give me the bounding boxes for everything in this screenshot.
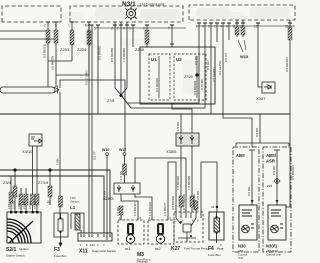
wire X26/3 to pump m1 (121, 194, 138, 217)
svg-text:m2: m2 (155, 246, 161, 251)
diagnostic socket X11 (78, 233, 112, 241)
svg-text:1.5 RD/BK: 1.5 RD/BK (122, 48, 126, 62)
svg-text:2: 2 (117, 27, 119, 31)
svg-text:0.5 BK/RN: 0.5 BK/RN (171, 196, 175, 210)
svg-text:ABS/: ABS/ (266, 153, 277, 158)
node Z7/8 junction (115, 22, 205, 108)
svg-text:S2/1: S2/1 (6, 247, 17, 253)
svg-text:U2: U2 (176, 57, 182, 62)
ABS/ASR control unit N30/1 (268, 205, 286, 240)
wire X26/3 to pump m2 (135, 194, 152, 217)
wire coupler box output (172, 104, 192, 133)
svg-text:22: 22 (47, 200, 51, 204)
svg-text:7: 7 (168, 27, 170, 31)
node Z7/20 (195, 73, 198, 76)
svg-text:F3: F3 (54, 247, 60, 253)
wire bus to connector X35/5 pin 1 (180, 114, 182, 133)
icon module symbol (125, 7, 136, 20)
svg-text:0.5 RD/GN: 0.5 RD/GN (291, 165, 295, 180)
control module box (right, dashed) (189, 5, 295, 20)
svg-text:0.5 RD: 0.5 RD (272, 165, 276, 175)
svg-text:0.5 BK/RD: 0.5 BK/RD (155, 77, 159, 92)
svg-text:Z3/4: Z3/4 (3, 180, 12, 185)
sleeve on pin8 wire (54, 30, 58, 43)
bus wire 15 drop to N30/1 (286, 114, 290, 207)
svg-text:1.5 BK/GY: 1.5 BK/GY (133, 202, 137, 216)
connector X4/10 (29, 134, 42, 146)
svg-text:Package: Package (137, 260, 148, 263)
svg-text:ASR: ASR (266, 159, 275, 164)
svg-text:LH Control unit: LH Control unit (140, 3, 164, 7)
svg-text:0.5 BK/YE: 0.5 BK/YE (43, 44, 47, 58)
svg-text:8: 8 (233, 25, 235, 29)
wire from capsule down to fuse F3 (59, 92, 61, 219)
svg-text:0.5 GN/RD: 0.5 GN/RD (212, 66, 216, 82)
svg-text:4 RD: 4 RD (17, 203, 21, 209)
svg-text:Rear: Rear (217, 247, 224, 251)
sleeve Z203 (70, 30, 74, 45)
svg-text:Z7/19: Z7/19 (38, 180, 49, 185)
node Z3/4 (13, 168, 16, 171)
svg-text:4: 4 (123, 27, 125, 31)
sleeve Z204 (87, 30, 91, 45)
wire into N30/1 with node Z28/5 (274, 150, 280, 205)
svg-text:E34: E34 (90, 243, 95, 247)
wire pin5 module3 to bus (210, 23, 212, 114)
svg-text:X35/5: X35/5 (166, 149, 177, 154)
wire pin5 to diagnostic socket (88, 25, 90, 233)
svg-text:0.5 RD/BN: 0.5 RD/BN (110, 48, 114, 62)
wire pin30 module3 with sleeve (289, 20, 291, 114)
svg-text:0.5 GY: 0.5 GY (224, 53, 228, 62)
svg-text:Z204: Z204 (77, 47, 87, 52)
top module pins (46, 22, 292, 25)
wire pin7 to coupler box (171, 25, 173, 47)
off-page wire pair top left (0, 31, 54, 39)
svg-text:Unit: Unit (238, 256, 243, 260)
connector X35/5 (176, 133, 199, 146)
svg-text:0.5 RD: 0.5 RD (255, 127, 259, 137)
svg-text:Diagnostic Socket: Diagnostic Socket (92, 249, 116, 253)
svg-text:Starter Switch: Starter Switch (6, 254, 25, 258)
svg-text:U1: U1 (151, 57, 157, 62)
wire connector Z203 (71, 22, 73, 61)
wire pin2 left module (48, 22, 89, 87)
svg-text:41: 41 (211, 205, 215, 209)
bus circuit 16 (0, 176, 104, 233)
svg-text:W10: W10 (102, 148, 109, 152)
wire pin12 to connector X357 (258, 23, 262, 87)
connector strip U2 (dashed) (174, 54, 206, 100)
control module box (left, dashed) (2, 6, 61, 22)
svg-text:1: 1 (196, 25, 198, 29)
connector strip U1 (dashed) (149, 54, 170, 100)
wire X35/5 to relay pin 2 (180, 146, 182, 212)
svg-text:3: 3 (111, 27, 113, 31)
svg-text:2.5 RD: 2.5 RD (12, 201, 16, 209)
scan smudges (10, 7, 290, 237)
svg-text:6: 6 (226, 25, 228, 29)
svg-text:Ignition: Ignition (19, 247, 29, 251)
pin numbers (44, 24, 289, 31)
svg-text:L1: L1 (70, 205, 76, 210)
bus rail under module 3 (196, 25, 295, 27)
harness capsule to connector (0, 86, 59, 94)
coupler X26/3 (114, 183, 140, 194)
svg-text:0.5 VT: 0.5 VT (93, 151, 97, 160)
svg-text:Z203: Z203 (60, 47, 70, 52)
svg-text:1.5 BK/GN: 1.5 BK/GN (187, 176, 191, 190)
svg-text:3: 3 (202, 25, 204, 29)
ABS control unit N30 (239, 205, 257, 240)
ABS/ASR housing (dash-dot) (263, 147, 291, 252)
wire X26/3 from relay (135, 158, 186, 212)
svg-text:0.5 BN/RD: 0.5 BN/RD (98, 45, 102, 60)
fuel pump m1 feed stub (120, 206, 122, 220)
wire X35/5 to relay pin 4 (191, 146, 193, 212)
svg-text:5: 5 (208, 25, 210, 29)
svg-text:2.5 RD: 2.5 RD (196, 190, 200, 200)
svg-text:4: 4 (220, 25, 222, 29)
wire pin2 module3 stub (216, 23, 218, 42)
svg-text:W17: W17 (119, 148, 126, 152)
svg-text:1 BK: 1 BK (56, 158, 60, 165)
svg-text:0.5 BK/GN: 0.5 BK/GN (51, 56, 55, 70)
svg-text:Fuel Pumps Relay: Fuel Pumps Relay (184, 247, 209, 251)
wire inside U1 (158, 56, 160, 98)
bus rail under module 2 (96, 27, 186, 29)
svg-text:1: 1 (68, 24, 70, 28)
svg-text:0.5 GN/YE: 0.5 GN/YE (218, 61, 222, 75)
relay stubs with sleeves (195, 200, 197, 212)
svg-text:1.5 BK/RD: 1.5 BK/RD (176, 175, 180, 190)
svg-text:N30/1: N30/1 (266, 244, 278, 249)
coupler box X26 (140, 47, 215, 104)
wire pin6 module3 stub (228, 23, 230, 40)
svg-text:0.5 GN: 0.5 GN (206, 60, 210, 70)
svg-text:6: 6 (85, 24, 87, 28)
rear fuse box F4 (209, 212, 224, 243)
wire m2 pin4 to relay (168, 162, 176, 217)
wire join Z204 to pin8 (56, 74, 89, 76)
wire connector Z204 (88, 22, 90, 75)
svg-text:m1: m1 (125, 246, 131, 251)
wire sleeve Z260 (146, 25, 148, 47)
wire pin4 module3 to ABS feed (223, 23, 252, 147)
svg-text:X357: X357 (256, 96, 266, 101)
splice bracket to both ABS units (236, 140, 289, 146)
svg-text:N30: N30 (238, 244, 246, 249)
svg-text:12: 12 (254, 25, 258, 29)
svg-text:K27: K27 (171, 246, 180, 252)
svg-text:W15: W15 (240, 54, 249, 59)
svg-text:2: 2 (214, 25, 216, 29)
fuel pump m2 (148, 220, 174, 244)
wire pin8 left module (55, 22, 57, 87)
svg-text:5: 5 (94, 27, 96, 31)
svg-text:F4: F4 (208, 246, 214, 252)
wire into N30 (249, 150, 255, 205)
wire pin3 module2 down (97, 25, 99, 114)
wire Z3/4 to switch (14, 170, 16, 211)
svg-text:Z7/8: Z7/8 (107, 99, 114, 103)
svg-text:0.5 RD/GN: 0.5 RD/GN (285, 57, 289, 72)
svg-text:0.75 BN: 0.75 BN (200, 79, 204, 90)
svg-text:X4/10: X4/10 (22, 149, 33, 154)
wire join Z203 to pin2 (48, 60, 72, 62)
svg-text:1.5 BK/VT: 1.5 BK/VT (163, 202, 167, 216)
fuel pump relay K27 (174, 212, 203, 242)
svg-text:6: 6 (129, 27, 131, 31)
svg-text:1.5 BN: 1.5 BN (119, 171, 123, 180)
svg-text:0.5 BK/GN: 0.5 BK/GN (193, 81, 197, 95)
svg-text:Control Unit: Control Unit (266, 253, 281, 257)
control module N3/1 box (middle, dashed) (70, 6, 183, 22)
wire pin9 down (132, 25, 134, 47)
node Z7/19 (48, 168, 51, 171)
ignition switch feed stubs (11, 176, 26, 211)
svg-text:1.5 BK: 1.5 BK (116, 207, 120, 216)
svg-text:Sensor: Sensor (70, 200, 79, 204)
svg-text:ABS: ABS (236, 153, 245, 158)
svg-text:0.75 BK/GN: 0.75 BK/GN (182, 194, 186, 210)
wires X4/10 to ignition switch (33, 146, 38, 211)
ground W15 label with leaders (238, 40, 246, 52)
wire bus to ABS splice (259, 114, 261, 140)
svg-text:0.5 RD: 0.5 RD (28, 201, 32, 209)
bus wire 15 (upper) (0, 113, 290, 115)
svg-text:Fuse Box: Fuse Box (54, 254, 67, 258)
svg-text:Z28: Z28 (267, 184, 273, 188)
ignition starter switch S2/1 (7, 212, 41, 243)
connector X357 (262, 82, 275, 93)
svg-text:0.5 BK: 0.5 BK (33, 201, 37, 209)
svg-text:2.5 BK: 2.5 BK (22, 201, 26, 209)
svg-text:0.5 BN: 0.5 BN (194, 56, 198, 65)
svg-text:Fuse Box: Fuse Box (208, 253, 221, 257)
wire loop to ground W17 (60, 80, 125, 152)
svg-text:1.5 RD: 1.5 RD (176, 121, 180, 131)
svg-text:9: 9 (143, 27, 145, 31)
wire Z7/19 stub (49, 170, 51, 205)
ground W15 stubs (237, 20, 243, 37)
fuse F3 (54, 213, 68, 246)
svg-text:N3/1: N3/1 (122, 1, 136, 8)
ABS housing (dash-dot) (233, 147, 259, 252)
fuel pump m1 (118, 220, 144, 244)
svg-text:1.5 BK/RD: 1.5 BK/RD (148, 201, 152, 216)
svg-text:Z7/20: Z7/20 (184, 75, 193, 79)
svg-text:4 BK: 4 BK (7, 203, 11, 209)
svg-text:0.5 GY/RD: 0.5 GY/RD (85, 70, 89, 85)
svg-text:X26/3: X26/3 (103, 196, 114, 201)
bus circuit 15R (0, 170, 110, 233)
svg-text:X11: X11 (79, 249, 88, 255)
svg-text:0.5 RD: 0.5 RD (247, 186, 251, 196)
wire inside U2 (196, 56, 198, 98)
svg-text:2: 2 (44, 24, 46, 28)
wire relay to rear fuse F4 (201, 162, 217, 212)
wire to diagnostic socket 2 (91, 25, 93, 233)
sleeve on pin2 wire (46, 30, 50, 43)
